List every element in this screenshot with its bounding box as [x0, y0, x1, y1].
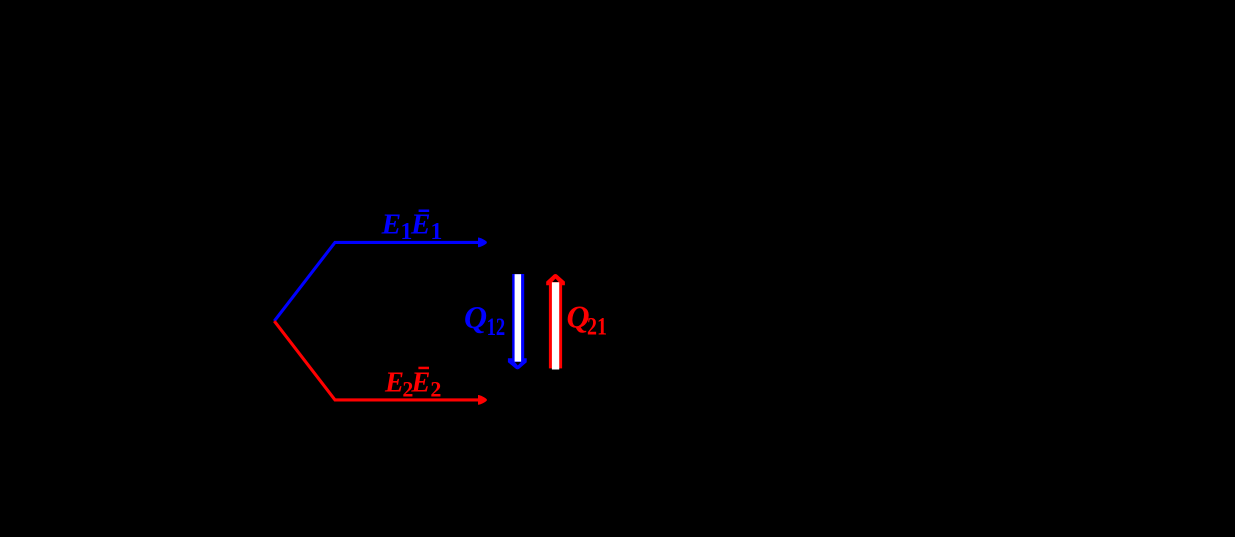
svg-text:E: E	[384, 368, 404, 399]
red hollow up-arrow Q21	[546, 274, 565, 370]
label E1 E1bar (blue)	[381, 209, 443, 245]
svg-text:Q: Q	[464, 299, 487, 335]
svg-text:1: 1	[430, 219, 442, 245]
svg-text:E: E	[410, 368, 430, 399]
svg-text:E: E	[381, 209, 402, 240]
svg-text:2: 2	[430, 377, 441, 402]
red arrowhead on lower level line	[478, 395, 487, 405]
svg-text:12: 12	[487, 314, 506, 341]
label E2 E2bar (red)	[384, 367, 441, 402]
blue hollow down-arrow Q12	[508, 274, 527, 369]
blue arrowhead on upper level line	[478, 238, 487, 248]
label Q21 (red)	[567, 299, 608, 341]
label Q12 (blue)	[464, 299, 505, 341]
svg-text:21: 21	[587, 314, 607, 341]
wire: blue level line (upper branch E1)	[274, 242, 479, 321]
svg-text:E: E	[410, 209, 431, 240]
wire: red level line (lower branch E2)	[274, 321, 479, 400]
